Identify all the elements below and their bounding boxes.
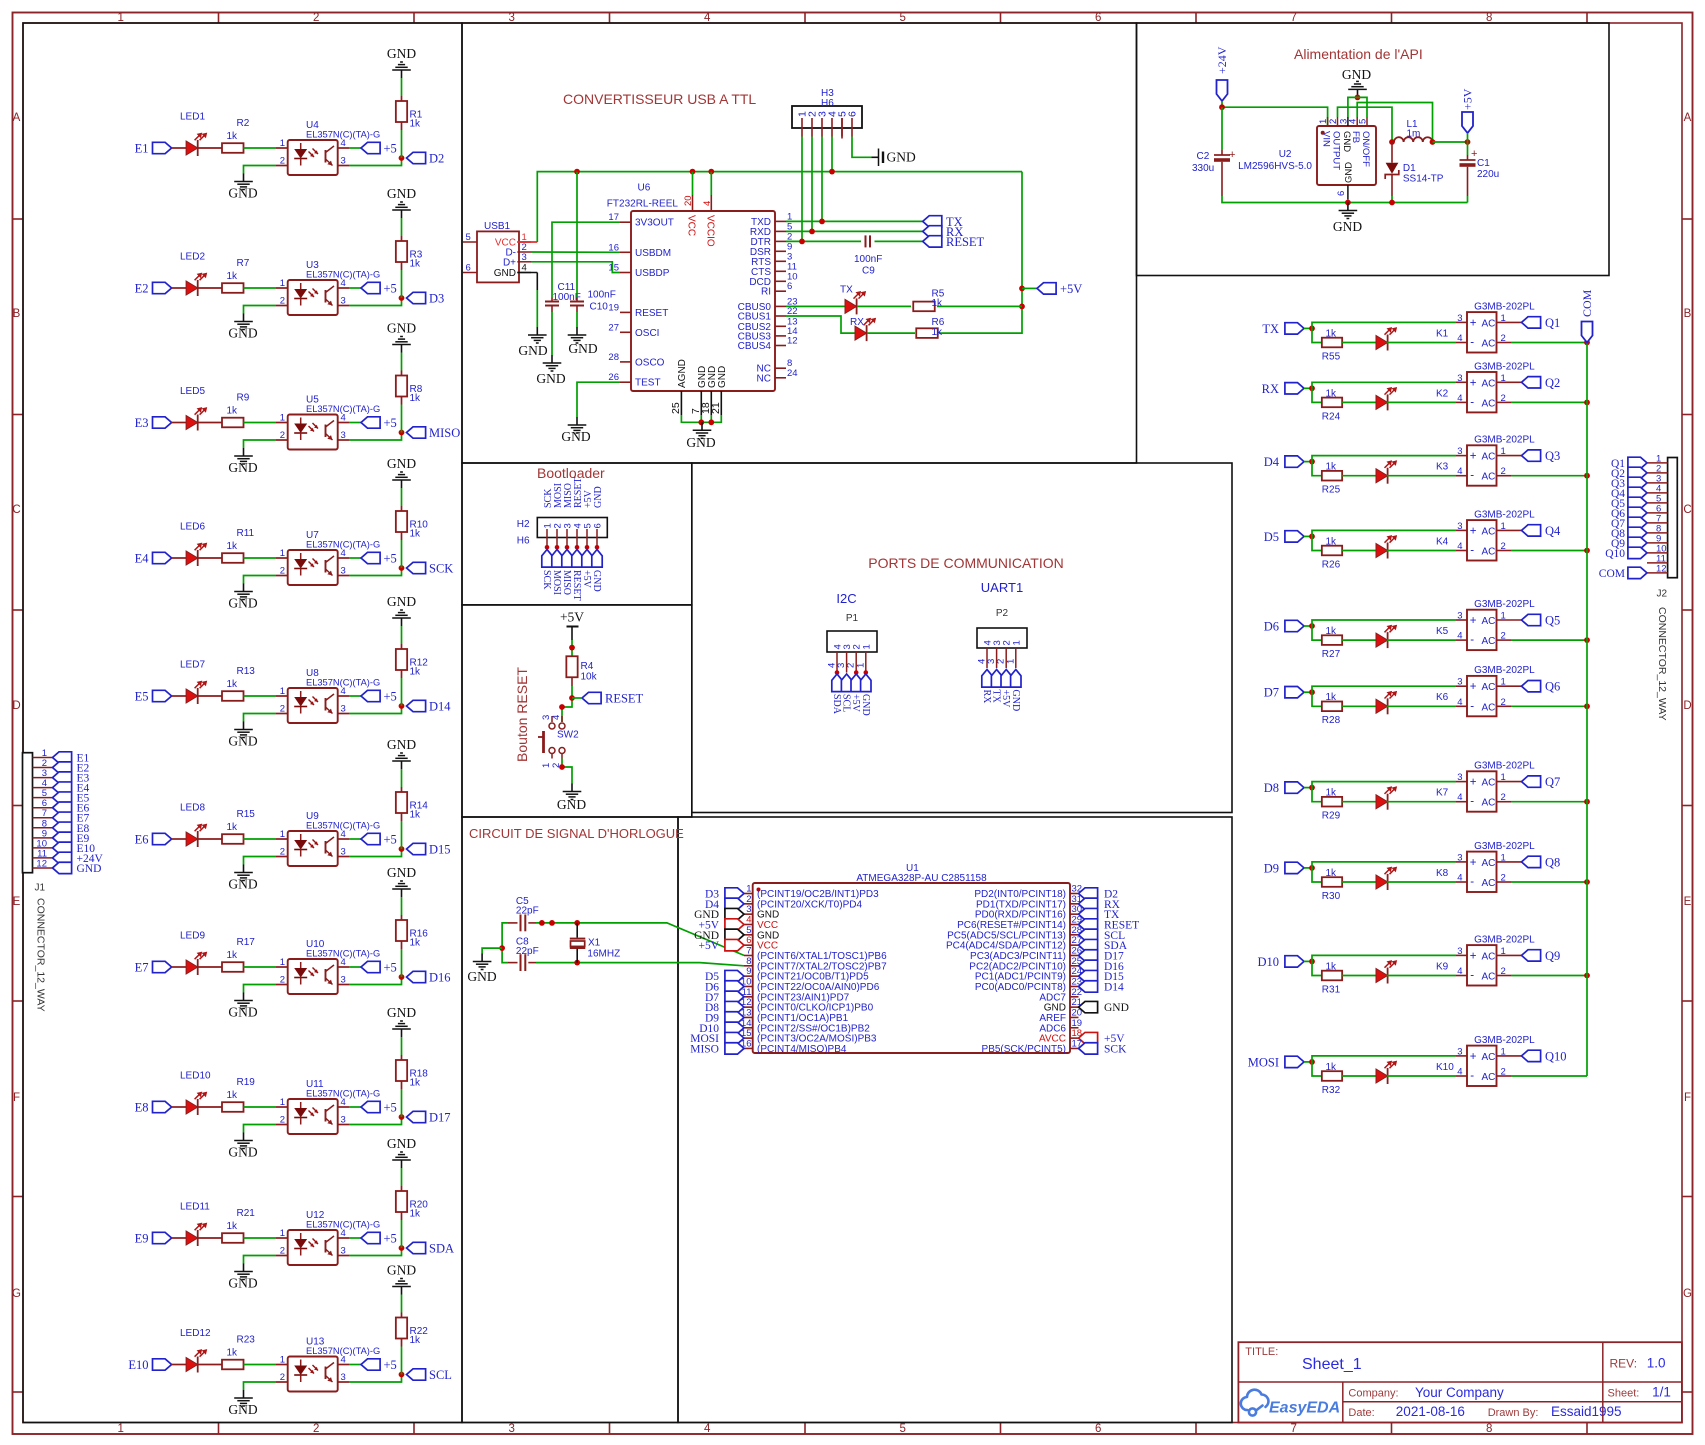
svg-text:+5: +5: [384, 282, 397, 296]
wire R19 to U11 pin1: [244, 1106, 277, 1108]
svg-text:GND: GND: [228, 1005, 257, 1020]
resistor R13 1k: [222, 691, 244, 701]
IC U2 LM2596HVS-5.0: [1317, 126, 1376, 185]
svg-text:+5: +5: [384, 1232, 397, 1246]
svg-text:R24: R24: [1322, 411, 1341, 422]
resistor R28 1k: [1322, 702, 1342, 712]
ground under U4: [243, 174, 245, 182]
node D14: [407, 700, 426, 711]
wire ground to R16: [401, 897, 403, 915]
svg-text:REV:: REV:: [1610, 1357, 1638, 1371]
wire K7 pin1 to Q7: [1497, 781, 1522, 783]
junction C5 a: [539, 920, 545, 926]
svg-text:8: 8: [1486, 1423, 1492, 1435]
wire LED9 to R17: [198, 966, 222, 968]
svg-text:I2C: I2C: [836, 591, 856, 606]
wire D6 to junction: [1304, 625, 1312, 627]
svg-text:P1: P1: [846, 613, 859, 624]
svg-text:R26: R26: [1322, 559, 1341, 570]
svg-text:Q9: Q9: [1545, 949, 1560, 963]
wire ground to R1: [401, 78, 403, 96]
U1 pin 29 PC6(RESET#/PCINT14): [1070, 923, 1079, 925]
svg-text:2021-08-16: 2021-08-16: [1396, 1404, 1465, 1419]
flag RX P2: [982, 670, 992, 688]
node D8 at U1 pin 12: [725, 1001, 744, 1012]
junction SCK: [399, 565, 405, 571]
svg-text:UART1: UART1: [981, 580, 1023, 595]
junction D8: [1309, 785, 1315, 791]
svg-text:1k: 1k: [227, 1348, 239, 1359]
wire U11 pin3 to node D17: [338, 1124, 349, 1126]
svg-text:AC: AC: [1482, 1052, 1496, 1063]
svg-text:17: 17: [1072, 1038, 1083, 1049]
wire junction to K1 pin3: [1312, 322, 1456, 328]
wire D1 to rail: [1391, 196, 1393, 203]
wire U2 pin6 to rail: [1347, 199, 1349, 203]
svg-text:Bouton RESET: Bouton RESET: [514, 667, 530, 762]
wire bus to C10: [576, 172, 578, 298]
U1 pin 2 (PCINT20/XCK/T0)PD4: [744, 903, 753, 905]
svg-text:4: 4: [704, 1423, 711, 1435]
flag +5 row E5: [361, 690, 380, 701]
wire R13 to U8 pin1: [244, 695, 277, 697]
J1 pin 7 E7: [33, 817, 53, 819]
svg-text:4: 4: [1457, 466, 1462, 477]
resistor R10 1k: [396, 511, 407, 532]
wire junction to K8 pin3: [1312, 862, 1456, 868]
U2 pin 5 ON/OFF: [1366, 117, 1368, 126]
wire COM bus: [1586, 343, 1588, 1077]
node D15: [407, 843, 426, 854]
resistor R18 1k: [396, 1060, 407, 1081]
wire K8 pin2 to COM bus: [1497, 881, 1512, 883]
svg-text:21: 21: [710, 402, 722, 414]
svg-text:AC: AC: [1482, 547, 1496, 558]
node E7: [153, 961, 172, 972]
node E5: [153, 690, 172, 701]
svg-text:R11: R11: [237, 528, 255, 539]
junction COM K7: [1584, 799, 1590, 805]
junction SCL: [399, 1372, 405, 1378]
wire U11 pin4 to +5: [338, 1106, 349, 1108]
resistor R5 1k: [913, 302, 935, 312]
svg-text:COM: COM: [1580, 289, 1594, 317]
svg-text:3: 3: [1457, 446, 1462, 457]
wire VCC pin20 to bus: [692, 172, 694, 195]
J1 pin 3 E3: [33, 777, 53, 779]
section box alimentation: [1137, 23, 1610, 276]
resistor R1 1k: [396, 101, 407, 122]
svg-text:R32: R32: [1322, 1085, 1341, 1096]
LED RX: [855, 326, 867, 340]
wire R12 to junction D14: [401, 670, 403, 678]
svg-text:GND: GND: [77, 863, 102, 875]
junction COM K6: [1584, 703, 1590, 709]
wire TXD to TX flag: [786, 220, 923, 222]
svg-text:Date:: Date:: [1348, 1407, 1374, 1419]
svg-text:1k: 1k: [227, 541, 239, 552]
svg-text:Essaid1995: Essaid1995: [1551, 1404, 1622, 1419]
svg-text:LED2: LED2: [180, 252, 205, 263]
svg-text:MISO: MISO: [561, 570, 572, 595]
node SCK at U1 pin 17: [1079, 1043, 1098, 1054]
ground SW2: [571, 784, 573, 792]
resistor R20 1k: [396, 1191, 407, 1212]
svg-text:LED1: LED1: [180, 112, 205, 123]
wire H3 pin2 to RXD: [811, 137, 813, 232]
wire LED to K3 pin4: [1387, 475, 1456, 477]
U6 pin 23 CBUS0: [775, 305, 786, 307]
svg-text:U2: U2: [1279, 149, 1292, 160]
crystal X1 16MHZ: [576, 923, 578, 938]
svg-text:C: C: [12, 504, 20, 516]
resistor R14 1k: [396, 792, 407, 813]
svg-text:EL357N(C)(TA)-G: EL357N(C)(TA)-G: [306, 678, 380, 688]
svg-text:CONNECTOR_12_WAY: CONNECTOR_12_WAY: [1656, 607, 1668, 721]
svg-text:+24V: +24V: [1215, 46, 1229, 74]
wire R7 to U3 pin1: [244, 287, 277, 289]
wire E7 to LED9: [172, 966, 187, 968]
svg-text:EL357N(C)(TA)-G: EL357N(C)(TA)-G: [306, 404, 380, 414]
LED LED11: [186, 1231, 198, 1245]
junction clock gnd: [499, 945, 505, 951]
capacitor C2 330u polarized: [1221, 150, 1223, 155]
svg-text:Q1: Q1: [1545, 316, 1560, 330]
svg-text:4: 4: [1457, 393, 1462, 404]
diode D1 SS14-TP: [1391, 142, 1393, 163]
wire L1 to C1 +5V: [1433, 141, 1468, 143]
wire U3 pin2 to ground: [276, 305, 288, 307]
resistor R4 10k: [566, 656, 577, 677]
svg-text:3: 3: [1457, 772, 1462, 783]
node MOSI relay input: [1285, 1056, 1304, 1067]
U1 pin 19 ADC6: [1070, 1027, 1079, 1029]
U1 pin 4 VCC: [744, 923, 753, 925]
svg-text:RESET: RESET: [635, 308, 668, 319]
wire LED to K1 pin4: [1387, 342, 1456, 344]
wire junction to R30: [1312, 868, 1322, 882]
node D7 relay input: [1285, 687, 1304, 698]
wire R18 to junction D17: [401, 1081, 403, 1089]
svg-text:+: +: [1470, 317, 1477, 329]
junction COM K9: [1584, 973, 1590, 979]
wire junction to K9 pin3: [1312, 955, 1456, 961]
wire K6 pin1 to Q6: [1497, 685, 1522, 687]
node D5 at U1 pin 9: [725, 970, 744, 981]
svg-text:12: 12: [36, 858, 47, 869]
svg-text:+5V: +5V: [1060, 282, 1082, 296]
ground under U12: [243, 1264, 245, 1272]
svg-text:OSCO: OSCO: [635, 357, 665, 368]
node D6 relay input: [1285, 620, 1304, 631]
svg-text:LED11: LED11: [180, 1202, 210, 1213]
svg-text:24: 24: [787, 368, 798, 379]
wire U7 pin3 to node SCK: [338, 575, 349, 577]
section box horloge: [462, 817, 678, 1423]
wire RX LED to R6: [867, 332, 915, 334]
svg-text:1: 1: [280, 829, 285, 840]
svg-text:GND: GND: [1333, 219, 1362, 234]
U1 pin 15 (PCINT3/OC2A/MOSI)PB3: [744, 1037, 753, 1039]
svg-text:GND: GND: [467, 969, 496, 984]
U1 pin 28 PC5(ADC5/SCL/PCINT13): [1070, 934, 1079, 936]
wire +5V to R4: [571, 640, 573, 656]
ground under U7: [243, 584, 245, 592]
wire U12 pin2 to ground: [276, 1255, 288, 1257]
node TX at U1 pin 30: [1079, 908, 1098, 919]
node D17: [407, 1111, 426, 1122]
optocoupler U4 EL357N: [288, 140, 338, 175]
wire USB1 GND down: [517, 272, 537, 274]
svg-text:R13: R13: [237, 666, 256, 677]
U6 pin 16 USBDM: [620, 251, 631, 253]
U1 pin 32 PD2(INT0/PCINT18): [1070, 893, 1079, 895]
wire DTR to C9: [786, 240, 861, 242]
svg-text:R2: R2: [237, 118, 250, 129]
wire U5 pin2 to ground: [276, 439, 288, 441]
U6 pin 26 TEST: [620, 381, 631, 383]
svg-text:27: 27: [608, 322, 619, 333]
wire OUTPUT to D1 L1: [1338, 107, 1393, 142]
svg-text:Q10: Q10: [1545, 1049, 1567, 1063]
U6 pin 22 CBUS1: [775, 315, 786, 317]
svg-text:CONVERTISSEUR USB A TTL: CONVERTISSEUR USB A TTL: [563, 91, 756, 107]
switch SW2: [549, 723, 555, 729]
ground C11: [551, 355, 553, 363]
wire LED to K5 pin4: [1387, 639, 1456, 641]
U1 pin 7 (PCINT6/XTAL1/TOSC1)PB6: [744, 954, 753, 956]
svg-text:-: -: [1470, 545, 1474, 557]
svg-text:Your Company: Your Company: [1415, 1385, 1504, 1400]
+5V flag at U1 pin 18: [1079, 1032, 1098, 1043]
svg-text:E3: E3: [135, 416, 149, 430]
svg-text:-: -: [1470, 970, 1474, 982]
svg-text:GND: GND: [228, 1276, 257, 1291]
wire E3 to LED5: [172, 422, 187, 424]
wire USB1 D- to USBDM: [531, 251, 620, 253]
U1 pin 30 PD0(RXD/PCINT16): [1070, 913, 1079, 915]
wire U3 pin4 to +5: [338, 287, 349, 289]
svg-text:AC: AC: [1482, 1072, 1496, 1083]
junction R5 output: [1019, 304, 1025, 310]
node D3: [407, 292, 426, 303]
resistor R29 1k: [1322, 797, 1342, 807]
junction +24V C2: [1219, 104, 1225, 110]
junction RESET: [569, 695, 575, 701]
node E2: [153, 282, 172, 293]
resistor R21 1k: [222, 1233, 244, 1243]
junction COM K2: [1584, 400, 1590, 406]
svg-text:CBUS4: CBUS4: [738, 341, 772, 352]
svg-text:R30: R30: [1322, 891, 1341, 902]
svg-text:D4: D4: [1264, 455, 1280, 469]
wire R20 to junction SDA: [401, 1212, 403, 1220]
svg-text:USBDP: USBDP: [635, 268, 670, 279]
svg-text:4: 4: [1457, 873, 1462, 884]
+5V flag at U1 pin 4: [725, 919, 744, 930]
ground C10: [576, 327, 578, 335]
svg-text:GND: GND: [228, 1145, 257, 1160]
wire U9 pin2 to ground: [276, 856, 288, 858]
ground below U2: [1347, 203, 1349, 211]
svg-text:GND: GND: [387, 594, 416, 609]
wire junction to R28: [1312, 692, 1322, 706]
svg-text:1k: 1k: [1326, 328, 1338, 339]
U1 pin 24 PC1(ADC1/PCINT9): [1070, 975, 1079, 977]
J1 pin 12 GND: [33, 867, 53, 869]
svg-text:3: 3: [1457, 373, 1462, 384]
svg-text:LED10: LED10: [180, 1071, 211, 1082]
node MOSI at U1 pin 15: [725, 1032, 744, 1043]
svg-text:G: G: [12, 1288, 21, 1300]
svg-text:1k: 1k: [410, 119, 422, 130]
node D4 relay input: [1285, 456, 1304, 467]
svg-text:+5V: +5V: [1461, 88, 1475, 110]
wire H3 pin3 to TXD: [821, 137, 823, 222]
svg-text:1k: 1k: [1326, 868, 1338, 879]
svg-text:R29: R29: [1322, 811, 1341, 822]
J1 pin 6 E6: [33, 807, 53, 809]
svg-text:6: 6: [466, 262, 471, 273]
wire to clock ground: [482, 948, 502, 953]
svg-text:1: 1: [280, 278, 285, 289]
node TX: [923, 216, 942, 227]
wire U13 pin4 to +5: [338, 1364, 349, 1366]
svg-text:VCC: VCC: [686, 215, 697, 236]
svg-text:22pF: 22pF: [516, 906, 539, 917]
flag +5 row E6: [361, 833, 380, 844]
USB1 pin 3 D+: [517, 261, 531, 263]
svg-text:1k: 1k: [410, 938, 422, 949]
node Q6: [1522, 681, 1541, 692]
svg-text:GND: GND: [887, 150, 916, 165]
svg-text:K4: K4: [1436, 536, 1449, 547]
svg-text:GND: GND: [1344, 162, 1355, 183]
svg-text:1k: 1k: [227, 406, 239, 417]
svg-text:F: F: [1684, 1092, 1691, 1104]
node SCK: [407, 562, 426, 573]
svg-text:GND: GND: [536, 371, 565, 386]
svg-text:4: 4: [1457, 333, 1462, 344]
wire U12 pin4 to +5: [338, 1237, 349, 1239]
svg-text:K8: K8: [1436, 868, 1449, 879]
svg-text:RESET: RESET: [571, 570, 582, 601]
svg-text:LED6: LED6: [180, 522, 205, 533]
node D5 relay input: [1285, 531, 1304, 542]
svg-text:GND: GND: [557, 797, 586, 812]
flag SDA P1: [832, 674, 842, 692]
wire K9 pin1 to Q9: [1497, 954, 1522, 956]
resistor R55 1k: [1322, 338, 1342, 348]
U1 pin 25 PC2(ADC2/PCINT10): [1070, 965, 1079, 967]
ground flag at U1 pin 5: [725, 929, 744, 940]
junction D10: [1309, 959, 1315, 965]
LED relay K1: [1376, 336, 1388, 350]
svg-text:GND: GND: [1010, 690, 1021, 712]
wire K1 pin1 to Q1: [1497, 321, 1522, 323]
wire LED6 to R11: [198, 557, 222, 559]
svg-text:(PCINT4/MISO)PB4: (PCINT4/MISO)PB4: [757, 1044, 847, 1055]
USB1 pin 1 VCC: [517, 241, 531, 243]
svg-text:4: 4: [1457, 541, 1462, 552]
svg-text:G3MB-202PL: G3MB-202PL: [1474, 509, 1535, 520]
svg-text:1k: 1k: [410, 667, 422, 678]
svg-text:AC: AC: [1482, 339, 1496, 350]
J2 pin 7 Q7: [1647, 522, 1668, 524]
svg-text:D15: D15: [429, 843, 451, 857]
+5V flag at U1 pin 6: [725, 939, 744, 950]
svg-text:GND: GND: [591, 570, 602, 592]
flag GND bootloader: [592, 550, 602, 568]
wire R21 to U12 pin1: [244, 1237, 277, 1239]
wire R31 to LED: [1342, 975, 1376, 977]
svg-text:G3MB-202PL: G3MB-202PL: [1474, 665, 1535, 676]
svg-text:R4: R4: [581, 661, 594, 672]
svg-text:Q3: Q3: [1545, 449, 1560, 463]
U6 pin 3 RTS: [775, 260, 786, 262]
node RX at U1 pin 31: [1079, 898, 1098, 909]
flag +5 row E2: [361, 282, 380, 293]
wire LED10 to R19: [198, 1106, 222, 1108]
U6 pin 24 NC: [775, 377, 786, 379]
junction D16: [399, 974, 405, 980]
junction RXD H3: [809, 229, 815, 235]
svg-text:GND: GND: [228, 1402, 257, 1417]
H3 pin5 stub: [841, 118, 843, 139]
svg-text:1k: 1k: [410, 1078, 422, 1089]
svg-text:GND: GND: [717, 366, 728, 388]
U1 pin 5 GND: [744, 934, 753, 936]
ground flag at U1 pin 3: [725, 908, 744, 919]
junction D15: [399, 846, 405, 852]
svg-text:12: 12: [787, 336, 798, 347]
svg-text:D: D: [12, 700, 20, 712]
flag TX P2: [991, 670, 1001, 688]
svg-text:AC: AC: [1482, 318, 1496, 329]
U1 pin 11 (PCINT23/AIN1)PD7: [744, 996, 753, 998]
svg-text:USB1: USB1: [484, 221, 511, 232]
svg-text:16: 16: [741, 1038, 752, 1049]
optocoupler U8 EL357N: [288, 688, 338, 723]
wire gnd to pin3 pin5: [1348, 97, 1367, 117]
wire U11 pin2 to ground: [276, 1124, 288, 1126]
wire ground to R3: [401, 218, 403, 236]
resistor R26 1k: [1322, 546, 1342, 556]
svg-text:G3MB-202PL: G3MB-202PL: [1474, 761, 1535, 772]
J2 pin 11 nc: [1647, 562, 1668, 564]
svg-text:MOSI: MOSI: [551, 570, 562, 595]
wire E5 to LED7: [172, 695, 187, 697]
svg-text:R23: R23: [237, 1335, 256, 1346]
section box bouton reset: [462, 605, 692, 817]
junction bus H3 pin4: [829, 169, 835, 175]
LED TX: [845, 299, 857, 313]
svg-text:10k: 10k: [581, 672, 598, 683]
flag +5 row E9: [361, 1232, 380, 1243]
svg-text:AC: AC: [1482, 702, 1496, 713]
flag RESET bootloader: [572, 550, 582, 568]
node E3: [153, 417, 172, 428]
resistor R27 1k: [1322, 635, 1342, 645]
J1 pin 8 E8: [33, 827, 53, 829]
svg-text:J2: J2: [1657, 589, 1668, 600]
svg-text:SDA: SDA: [831, 694, 842, 715]
svg-text:GND: GND: [387, 321, 416, 336]
flag +5 row E1: [361, 142, 380, 153]
wire LED1 to R2: [198, 147, 222, 149]
svg-text:GND: GND: [387, 737, 416, 752]
wire R4 to RESET node: [571, 678, 573, 687]
